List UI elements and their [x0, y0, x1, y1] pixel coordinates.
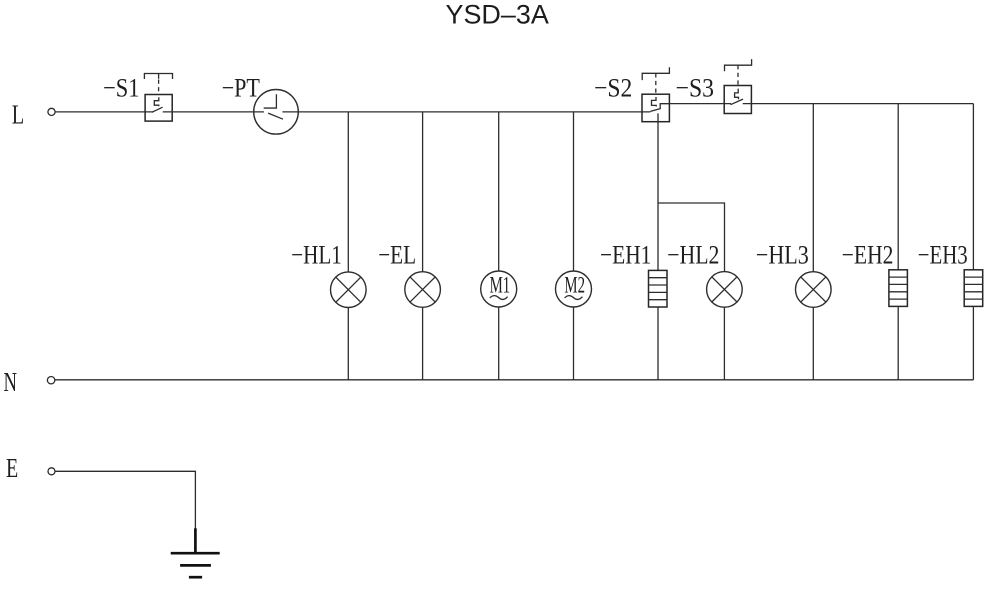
heater EH1 [649, 270, 668, 307]
svg-text:N: N [4, 367, 18, 397]
ground [171, 528, 220, 577]
lamp EL [405, 272, 441, 308]
wire drop EH2 [897, 104, 899, 270]
svg-text:−EH2: −EH2 [842, 239, 894, 269]
svg-text:YSD–3A: YSD–3A [446, 0, 550, 29]
svg-text:−EL: −EL [378, 240, 416, 270]
svg-text:−EH1: −EH1 [600, 239, 651, 269]
wire EH2 to N [897, 306, 899, 379]
svg-text:−PT: −PT [222, 73, 260, 103]
wire drop HL3 [812, 104, 814, 272]
wire branch S2 to HL2 [658, 203, 725, 272]
terminal L [48, 108, 55, 115]
switch S2 [642, 67, 669, 122]
terminal N [47, 377, 54, 384]
lamp HL3 [796, 272, 832, 308]
wire M1 to N [498, 307, 500, 380]
svg-text:E: E [6, 453, 18, 483]
wire right bus [751, 103, 973, 105]
wire HL1 to N [347, 308, 349, 380]
timer PT [254, 90, 299, 135]
wire S2 to S3 [669, 103, 731, 105]
terminal E [48, 468, 55, 475]
wire drop M1 [498, 112, 500, 271]
wire N bus [55, 379, 974, 381]
svg-text:L: L [12, 100, 24, 130]
wire PT to S2 [282, 111, 650, 113]
wire L to S1 [55, 111, 153, 113]
wire drop M2 [573, 112, 575, 271]
wire EH3 to N [972, 306, 974, 379]
wire EH1 to N [657, 307, 659, 380]
switch S3 [724, 59, 751, 113]
lamp HL1 [331, 272, 367, 308]
heater EH3 [964, 270, 983, 307]
svg-text:M2: M2 [564, 273, 585, 299]
wire HL2 to N [723, 307, 725, 380]
wire M2 to N [573, 307, 575, 380]
motor M1 [481, 271, 517, 307]
svg-text:−EH3: −EH3 [918, 239, 968, 269]
wire drop EL [422, 112, 424, 272]
svg-text:−HL1: −HL1 [291, 240, 342, 270]
wire EL to N [422, 307, 424, 380]
svg-text:M1: M1 [490, 273, 511, 299]
wire S1 to PT [163, 111, 264, 113]
motor M2 [556, 271, 592, 307]
wire S2 output down to EH1 [657, 113, 659, 270]
svg-text:−HL2: −HL2 [667, 239, 719, 269]
svg-text:−S3: −S3 [676, 72, 714, 102]
svg-text:−S2: −S2 [594, 73, 632, 103]
lamp HL2 [707, 272, 743, 308]
svg-text:−S1: −S1 [103, 73, 139, 103]
wire drop EH3 [972, 104, 974, 270]
switch S1 [144, 74, 172, 122]
heater EH2 [889, 270, 908, 307]
wire E [55, 471, 195, 528]
wire drop HL1 [347, 112, 349, 272]
wire HL3 to N [812, 307, 814, 380]
svg-text:−HL3: −HL3 [756, 239, 809, 269]
